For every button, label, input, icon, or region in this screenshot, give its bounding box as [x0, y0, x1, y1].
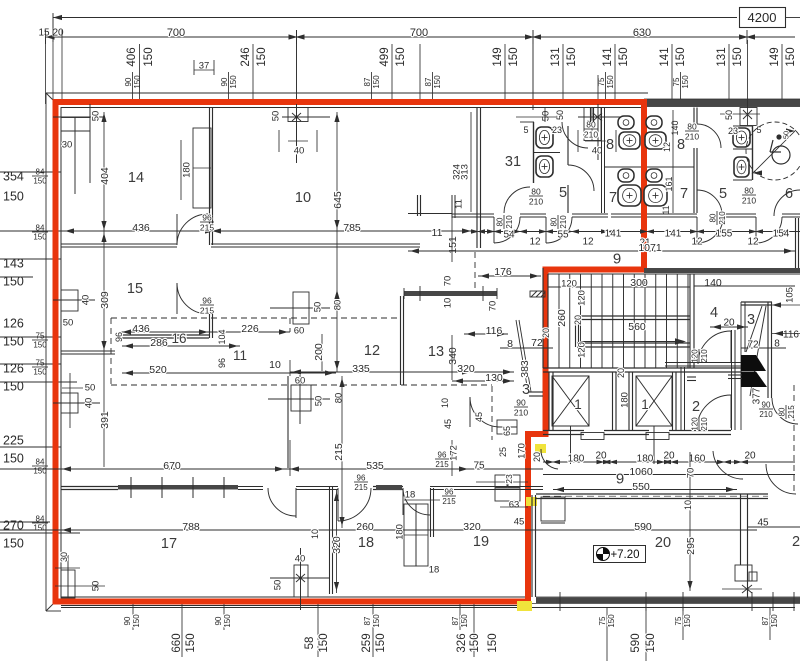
svg-text:215: 215 — [435, 460, 449, 469]
toilet room 31 lower — [536, 156, 553, 177]
svg-text:80: 80 — [709, 213, 718, 222]
svg-text:150: 150 — [469, 633, 481, 652]
svg-text:9: 9 — [613, 250, 621, 267]
svg-text:295: 295 — [685, 537, 697, 555]
door arc room 5-right — [697, 190, 722, 215]
svg-text:210: 210 — [529, 196, 543, 206]
stair dims — [548, 286, 690, 288]
svg-text:141: 141 — [602, 47, 614, 66]
stair flight dividers — [577, 315, 690, 317]
svg-text:15: 15 — [38, 28, 50, 39]
partition y167 right unit — [647, 166, 694, 168]
svg-text:45: 45 — [757, 518, 769, 529]
dim 176 — [478, 275, 541, 277]
svg-text:326: 326 — [456, 633, 468, 652]
svg-text:404: 404 — [99, 167, 111, 185]
svg-text:23: 23 — [552, 125, 562, 135]
dimension row 700/700/630 — [45, 36, 795, 38]
wardrobe cabinet room 14 — [193, 128, 211, 208]
svg-text:4200: 4200 — [748, 10, 777, 25]
svg-text:785: 785 — [343, 222, 361, 234]
kitchenette room 19 — [495, 475, 507, 487]
wall below room 4 — [665, 362, 741, 364]
wall between 17 and 18 — [329, 487, 331, 594]
svg-text:75: 75 — [36, 331, 45, 340]
elevator top wall — [543, 367, 741, 369]
svg-text:12: 12 — [582, 237, 594, 248]
label 4200 box — [740, 8, 786, 28]
svg-text:150: 150 — [785, 47, 797, 66]
svg-text:286: 286 — [150, 337, 168, 349]
room 2 door — [697, 395, 731, 429]
svg-text:12: 12 — [529, 237, 541, 248]
svg-text:50: 50 — [312, 302, 323, 313]
pier left wall y290 — [61, 290, 78, 311]
svg-text:259: 259 — [361, 633, 373, 652]
svg-text:72: 72 — [747, 340, 759, 351]
red unit boundary outline — [56, 102, 645, 602]
svg-text:7: 7 — [680, 186, 688, 202]
bathroom block left wall x478 — [476, 108, 478, 249]
svg-text:150: 150 — [681, 75, 690, 89]
corridor door arcs — [494, 217, 520, 243]
svg-text:58: 58 — [304, 637, 316, 650]
svg-text:155: 155 — [716, 229, 733, 240]
svg-text:130: 130 — [485, 372, 503, 384]
svg-text:141: 141 — [659, 47, 671, 66]
svg-text:40: 40 — [295, 553, 306, 564]
svg-text:200: 200 — [313, 343, 325, 361]
top wall dark band right of red boundary — [644, 99, 800, 107]
svg-text:535: 535 — [366, 460, 384, 472]
elevator 1 cabin — [552, 376, 589, 426]
elevator 2 shaft walls — [628, 372, 630, 430]
lobby bottom wall — [536, 493, 768, 495]
svg-text:87: 87 — [424, 77, 433, 86]
room 16 dims — [120, 331, 290, 333]
svg-text:320: 320 — [331, 536, 343, 554]
svg-text:63: 63 — [509, 499, 520, 510]
wall stub x590 top — [590, 108, 592, 123]
svg-text:215: 215 — [442, 497, 456, 506]
svg-text:320: 320 — [463, 521, 481, 533]
svg-text:19: 19 — [473, 534, 489, 550]
stair left wall — [542, 268, 544, 368]
svg-text:80: 80 — [333, 393, 344, 404]
wall x608 between 5 and 7/8 left unit — [601, 108, 603, 214]
svg-text:150: 150 — [318, 633, 330, 652]
svg-text:3: 3 — [522, 382, 530, 398]
wall x694 right unit — [693, 108, 695, 125]
svg-text:215: 215 — [787, 405, 796, 419]
svg-text:20: 20 — [663, 451, 675, 462]
shaft 3 dims 72 8 — [741, 347, 786, 349]
svg-text:60: 60 — [294, 325, 305, 336]
window dim line 670/535/75 — [0, 468, 543, 470]
svg-text:54: 54 — [503, 230, 515, 241]
wall between room 14 and room 10 — [209, 108, 211, 246]
svg-text:210: 210 — [505, 215, 514, 229]
svg-text:75: 75 — [36, 358, 45, 367]
door room 15 in wall y245 — [177, 214, 208, 245]
svg-text:180: 180 — [394, 524, 405, 540]
svg-text:87: 87 — [363, 77, 372, 86]
wall segment x430-543 — [430, 486, 543, 488]
svg-text:20: 20 — [532, 452, 542, 462]
svg-text:18: 18 — [429, 564, 440, 575]
svg-text:12: 12 — [691, 237, 703, 248]
black duct triangles — [741, 355, 766, 371]
svg-text:11: 11 — [661, 205, 671, 214]
svg-text:96: 96 — [438, 451, 447, 460]
WC cubicle walls — [752, 126, 754, 180]
svg-text:560: 560 — [628, 321, 646, 333]
svg-text:50: 50 — [313, 396, 324, 407]
room 4 door — [698, 331, 731, 364]
svg-text:15: 15 — [127, 281, 143, 297]
svg-text:60: 60 — [295, 375, 306, 386]
dim 320 rotated — [336, 490, 338, 593]
svg-text:172: 172 — [448, 445, 459, 461]
pier on top wall x595 — [584, 108, 601, 141]
svg-text:150: 150 — [132, 614, 141, 628]
svg-text:9: 9 — [616, 470, 624, 487]
svg-text:210: 210 — [584, 129, 598, 139]
svg-text:90: 90 — [214, 616, 223, 625]
svg-text:90: 90 — [124, 77, 133, 86]
vertical dim line x104 — [103, 112, 105, 467]
svg-text:45: 45 — [474, 412, 484, 422]
dim line 1071 — [408, 250, 795, 252]
svg-text:210: 210 — [718, 211, 727, 225]
svg-text:150: 150 — [223, 614, 232, 628]
stair block top wall — [644, 268, 800, 273]
elevator door frames — [581, 433, 604, 440]
dashed line x492 — [491, 386, 493, 440]
svg-text:5: 5 — [719, 186, 727, 202]
level marker box +7.20 — [594, 546, 646, 563]
svg-text:40: 40 — [80, 295, 91, 306]
svg-text:11: 11 — [233, 348, 247, 363]
right edge wall — [795, 218, 797, 268]
svg-text:150: 150 — [229, 75, 238, 89]
svg-text:788: 788 — [182, 521, 200, 533]
svg-text:75: 75 — [598, 616, 607, 625]
wall between rooms 18 and 19 — [430, 488, 432, 537]
wall section hatch left of stairs — [530, 291, 545, 297]
svg-text:140: 140 — [704, 277, 722, 289]
closet room 20 — [541, 497, 565, 521]
svg-text:30: 30 — [59, 552, 69, 562]
svg-text:150: 150 — [433, 75, 442, 89]
svg-text:25: 25 — [498, 447, 508, 457]
svg-text:90: 90 — [762, 401, 771, 410]
svg-text:80: 80 — [332, 300, 343, 311]
svg-text:550: 550 — [632, 481, 650, 493]
svg-text:70: 70 — [442, 276, 453, 287]
window wall rooms 17/18/19 — [61, 486, 118, 488]
svg-text:87: 87 — [363, 616, 372, 625]
svg-text:10: 10 — [442, 298, 453, 309]
pier top-left in room 14 — [61, 108, 90, 118]
svg-text:150: 150 — [143, 47, 155, 66]
svg-text:210: 210 — [700, 349, 709, 363]
svg-text:215: 215 — [200, 222, 214, 232]
svg-text:150: 150 — [33, 368, 47, 377]
bottom margin extension lines — [132, 604, 134, 630]
svg-text:50: 50 — [85, 382, 96, 393]
svg-text:150: 150 — [508, 47, 520, 66]
svg-text:150: 150 — [33, 233, 47, 242]
svg-text:150: 150 — [3, 452, 24, 466]
door arc room 20 entry — [541, 449, 558, 469]
svg-text:116: 116 — [486, 325, 503, 337]
svg-text:80: 80 — [550, 217, 559, 226]
column x300 y292 — [293, 292, 309, 324]
corridor dim line y231 — [478, 231, 800, 233]
svg-text:120: 120 — [576, 342, 587, 358]
stair walk line with arrow — [580, 341, 682, 343]
svg-text:1: 1 — [574, 397, 582, 412]
svg-text:150: 150 — [683, 614, 692, 628]
svg-text:150: 150 — [33, 341, 47, 350]
toilet cubicle room 31 wall — [533, 122, 535, 183]
sinks right unit — [646, 116, 662, 129]
svg-text:31: 31 — [505, 154, 521, 170]
partition y167 left unit — [605, 166, 641, 168]
elevator 2 cabin — [636, 376, 672, 426]
stair right wall to room 4 — [689, 274, 691, 368]
svg-text:150: 150 — [732, 47, 744, 66]
svg-text:30: 30 — [62, 139, 73, 150]
svg-text:8: 8 — [677, 137, 685, 153]
outer facade line bottom — [46, 610, 61, 612]
svg-text:8: 8 — [507, 338, 513, 350]
elevator bottom wall — [543, 430, 584, 432]
door room 8-right — [697, 124, 721, 148]
svg-text:10: 10 — [440, 398, 450, 408]
svg-text:590: 590 — [634, 521, 652, 533]
svg-text:149: 149 — [769, 47, 781, 66]
svg-text:645: 645 — [332, 191, 344, 209]
toilet room 31 upper — [536, 127, 553, 148]
svg-text:210: 210 — [685, 131, 699, 141]
facade corner chamfer top-left — [46, 93, 57, 104]
svg-text:40: 40 — [294, 145, 305, 156]
svg-text:80: 80 — [496, 217, 505, 226]
svg-text:630: 630 — [633, 27, 651, 39]
svg-text:150: 150 — [487, 633, 499, 652]
pier left wall y570 — [61, 570, 75, 598]
svg-text:150: 150 — [566, 47, 578, 66]
svg-text:150: 150 — [256, 47, 268, 66]
svg-text:141: 141 — [665, 229, 682, 240]
dim line 788/260/320/590 — [0, 529, 757, 531]
svg-text:150: 150 — [185, 633, 197, 652]
dim 590 line ticks — [529, 524, 531, 536]
svg-text:176: 176 — [494, 266, 512, 278]
inner wall face top — [61, 107, 644, 109]
bottom-right window mullion ticks — [559, 592, 561, 611]
svg-text:75: 75 — [674, 616, 683, 625]
svg-text:16: 16 — [171, 331, 186, 346]
yellow marker at jog corner — [535, 444, 546, 453]
wall x568 — [567, 126, 569, 165]
svg-text:20: 20 — [744, 451, 756, 462]
door right corner — [766, 464, 796, 494]
svg-text:20: 20 — [655, 535, 671, 551]
svg-text:20: 20 — [616, 368, 626, 378]
lobby dim row 180/20/180/20/160/20 — [543, 461, 795, 463]
svg-text:80: 80 — [687, 121, 697, 131]
dashed line right — [793, 385, 795, 495]
shaft 3 walls — [744, 302, 746, 352]
inner wall face left — [60, 108, 62, 598]
dim 116 / 8 / 72 — [464, 333, 508, 335]
svg-text:50: 50 — [782, 131, 791, 139]
room 16 walls — [115, 334, 209, 336]
room 13 left wall — [400, 296, 402, 385]
svg-text:120: 120 — [691, 417, 700, 431]
dashed line x475 — [474, 252, 476, 291]
room 4 dims — [710, 326, 748, 328]
svg-text:40: 40 — [83, 398, 94, 409]
stair treads — [558, 274, 560, 368]
svg-text:87: 87 — [761, 616, 770, 625]
door room 18 left — [338, 488, 371, 521]
svg-text:150: 150 — [3, 537, 24, 551]
top margin extension lines — [139, 44, 141, 100]
svg-text:14: 14 — [128, 170, 144, 186]
svg-text:150: 150 — [770, 614, 779, 628]
svg-text:80: 80 — [531, 186, 541, 196]
column x300 y385 — [291, 385, 311, 411]
bottom wall dark band right of red boundary — [536, 598, 800, 604]
svg-text:140: 140 — [670, 120, 680, 135]
svg-text:150: 150 — [33, 467, 47, 476]
svg-text:8: 8 — [774, 339, 780, 350]
svg-text:180: 180 — [637, 454, 654, 465]
svg-text:10: 10 — [683, 500, 693, 510]
furniture room 19 left — [404, 504, 416, 566]
svg-text:50: 50 — [63, 317, 74, 328]
svg-text:210: 210 — [700, 417, 709, 431]
svg-text:90: 90 — [516, 397, 526, 407]
svg-text:12: 12 — [364, 343, 380, 359]
svg-text:150: 150 — [372, 75, 381, 89]
svg-text:80: 80 — [744, 185, 754, 195]
overall dimension line 4200 — [53, 17, 737, 19]
wall room 20 left — [531, 495, 533, 597]
svg-text:45: 45 — [514, 516, 525, 527]
dim 45 right — [748, 526, 800, 528]
svg-text:75: 75 — [473, 461, 485, 472]
svg-text:150: 150 — [372, 614, 381, 628]
facade corner chamfer bottom-left — [46, 600, 57, 611]
dim 70 rotated — [689, 452, 691, 591]
vertical dim x337 645/80 — [336, 112, 338, 372]
svg-text:150: 150 — [645, 633, 657, 652]
svg-text:1: 1 — [641, 397, 649, 412]
svg-text:4: 4 — [710, 305, 718, 321]
svg-text:131: 131 — [716, 47, 728, 66]
circle diameter dim — [752, 130, 796, 174]
svg-text:210: 210 — [742, 195, 756, 205]
svg-text:391: 391 — [99, 411, 111, 429]
svg-text:87: 87 — [451, 616, 460, 625]
svg-text:90: 90 — [123, 616, 132, 625]
svg-text:126: 126 — [3, 317, 24, 331]
svg-text:20: 20 — [573, 315, 583, 325]
svg-text:436: 436 — [132, 323, 150, 335]
vertical dim x322 200 — [321, 334, 323, 371]
vestibule 3 door — [470, 397, 500, 427]
svg-text:45: 45 — [443, 419, 453, 429]
svg-text:+7.20: +7.20 — [610, 549, 639, 561]
svg-text:499: 499 — [379, 47, 391, 66]
dim 320 / 130 — [440, 371, 514, 373]
door room 18 right — [403, 488, 430, 515]
vestibule 3 slanted wall — [516, 320, 528, 392]
svg-text:96: 96 — [202, 295, 212, 305]
window band x376-402 — [373, 486, 403, 488]
svg-text:406: 406 — [126, 47, 138, 66]
svg-text:120: 120 — [561, 278, 577, 289]
door arc room 6 — [774, 190, 800, 216]
svg-text:154: 154 — [773, 229, 790, 240]
svg-text:670: 670 — [163, 460, 181, 472]
svg-text:18: 18 — [405, 489, 416, 500]
svg-text:96: 96 — [114, 332, 124, 342]
room 16 dashed outline — [111, 317, 400, 319]
outer facade line left — [45, 93, 47, 611]
svg-text:590: 590 — [630, 633, 642, 652]
window mullions — [130, 477, 132, 498]
wall between room 14/15 y245 — [61, 243, 177, 245]
svg-text:1060: 1060 — [629, 466, 653, 478]
svg-text:55: 55 — [557, 230, 569, 241]
svg-text:50: 50 — [555, 110, 565, 120]
svg-text:150: 150 — [607, 614, 616, 628]
svg-text:105: 105 — [784, 287, 795, 303]
door room 16 area — [177, 283, 208, 314]
svg-text:180: 180 — [181, 162, 192, 178]
svg-text:300: 300 — [630, 277, 648, 289]
svg-text:10: 10 — [269, 359, 281, 371]
wall segment x296-338 — [296, 486, 338, 488]
vertical wall room 11/12 x288 — [287, 376, 289, 468]
outer facade line top — [46, 92, 648, 94]
svg-text:700: 700 — [167, 27, 185, 39]
room 2 left wall — [680, 367, 682, 430]
svg-text:260: 260 — [356, 521, 374, 533]
dim 550 — [553, 489, 737, 491]
small wall marks room 2 — [687, 376, 696, 378]
svg-text:210: 210 — [759, 410, 773, 419]
svg-text:180: 180 — [568, 454, 585, 465]
svg-text:23: 23 — [728, 126, 738, 136]
room 4 right wall — [731, 330, 733, 430]
svg-text:335: 335 — [352, 363, 370, 375]
svg-text:17: 17 — [161, 536, 177, 552]
svg-text:215: 215 — [354, 483, 368, 492]
svg-text:225: 225 — [3, 434, 24, 448]
svg-text:226: 226 — [241, 323, 259, 335]
svg-text:50: 50 — [270, 111, 281, 122]
elevator 1 shaft walls — [548, 372, 550, 430]
wall stub between 15/16 — [61, 350, 115, 352]
svg-text:170: 170 — [516, 443, 527, 459]
